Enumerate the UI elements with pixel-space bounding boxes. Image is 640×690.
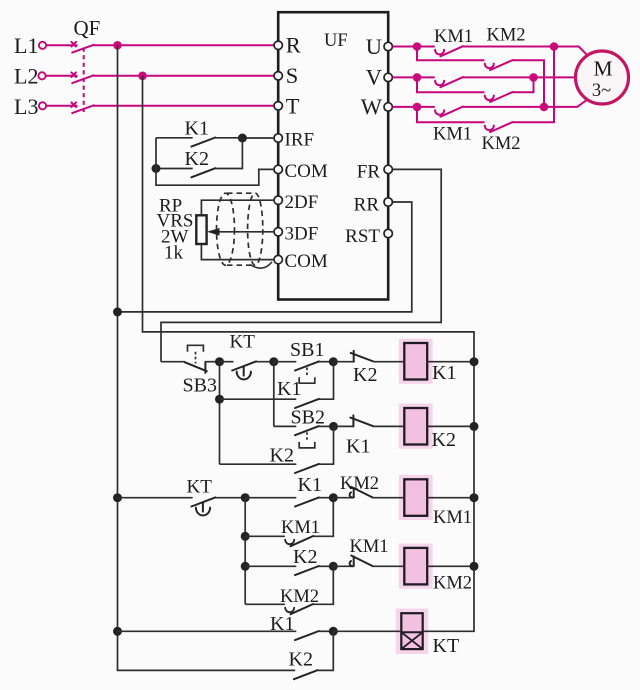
svg-text:QF: QF <box>74 16 101 40</box>
relay contact K1 NC (K2 coil row) <box>334 415 405 457</box>
contactor KM1 main contact U <box>435 46 463 56</box>
wire U row <box>392 46 434 48</box>
svg-text:K2: K2 <box>270 445 294 467</box>
wire node A down <box>219 362 221 465</box>
svg-text:U: U <box>366 34 382 59</box>
node L2 drop <box>138 72 147 81</box>
node E <box>241 493 250 502</box>
wire KM2-W to U motor line <box>513 47 554 123</box>
svg-text:L1: L1 <box>14 33 38 58</box>
node B after KT <box>269 357 278 366</box>
frequency inverter UF box <box>278 12 388 299</box>
wire W to motor <box>463 99 588 107</box>
wire V row <box>392 76 434 78</box>
wire K2 coil to right rail <box>427 425 474 427</box>
relay contact K2 NC (K1 coil row) <box>333 351 404 386</box>
cable shield <box>217 193 263 265</box>
svg-text:T: T <box>286 93 300 118</box>
svg-text:KT: KT <box>230 332 256 353</box>
node V motor junction <box>529 73 538 82</box>
terminal 2DF <box>274 196 282 204</box>
node KM1 rail junction <box>470 493 479 502</box>
relay contact K2 (bottom row) <box>289 631 334 679</box>
svg-text:KM1: KM1 <box>281 518 320 538</box>
node KM1 self-hold tap <box>241 532 250 541</box>
node U motor junction <box>550 42 559 51</box>
svg-text:K2: K2 <box>289 649 313 671</box>
contactor KM1 main contact W <box>435 107 463 117</box>
wire right supply rail from L2 <box>143 76 475 632</box>
wire W via KM2 branch <box>417 107 485 122</box>
wire L2 to QF <box>46 75 78 77</box>
svg-text:KT: KT <box>187 477 213 498</box>
relay contact K1 (KM1 row) <box>245 474 333 507</box>
svg-text:3~: 3~ <box>592 81 611 101</box>
svg-text:V: V <box>366 65 382 90</box>
time relay contact KT (KM1 row) <box>118 477 246 516</box>
node V branch <box>413 73 422 82</box>
svg-text:KM2: KM2 <box>487 26 526 46</box>
svg-text:KM2: KM2 <box>482 134 521 154</box>
svg-text:SB1: SB1 <box>290 339 324 361</box>
svg-text:K1: K1 <box>432 362 456 384</box>
potentiometer RP body <box>196 215 206 244</box>
wire RP top to 2DF <box>201 200 274 215</box>
node L1 drop <box>113 41 122 50</box>
svg-text:KM2: KM2 <box>433 574 472 594</box>
wire QF to T <box>94 105 275 107</box>
wire U via KM2 branch <box>417 47 485 61</box>
contactor coil KM2 <box>399 544 472 594</box>
node C after SB1 <box>329 357 338 366</box>
breaker QF linkage <box>83 48 85 113</box>
terminal 3DF <box>274 228 282 236</box>
contactor contact KM1 NC (KM2 row) <box>333 537 404 566</box>
contactor KM2 main contact U <box>485 60 513 70</box>
svg-text:COM: COM <box>285 161 328 182</box>
terminal RR <box>384 198 392 206</box>
wire to KT coil <box>333 630 401 632</box>
wire RR feed <box>118 202 412 312</box>
wire KM2-U to W motor line <box>513 60 544 107</box>
svg-text:K2: K2 <box>432 429 456 451</box>
wire L3 to QF <box>46 105 77 107</box>
svg-text:KM1: KM1 <box>350 537 389 557</box>
svg-text:R: R <box>286 33 301 58</box>
svg-text:L2: L2 <box>14 63 38 88</box>
time relay coil KT <box>396 609 459 658</box>
svg-text:SB3: SB3 <box>183 375 217 397</box>
svg-text:RST: RST <box>345 226 380 247</box>
terminal COM1 <box>274 165 282 173</box>
node K2 left junction <box>152 164 161 173</box>
wire V to motor <box>463 76 576 78</box>
wire left rail from L1 <box>118 45 296 670</box>
wire RP wiper to 3DF <box>218 231 274 233</box>
wire RP bottom to COM <box>201 244 274 260</box>
terminal W <box>384 103 392 111</box>
relay coil K2 <box>399 404 456 452</box>
contactor contact KM1 (self-hold) <box>245 498 333 547</box>
terminal FR <box>384 165 392 173</box>
svg-text:1k: 1k <box>164 243 184 264</box>
node D after SB2 <box>329 422 338 431</box>
breaker QF pole 3 <box>71 102 93 113</box>
svg-text:KM2: KM2 <box>340 474 379 494</box>
svg-text:KM1: KM1 <box>433 508 472 528</box>
wire V via KM2 branch <box>417 77 485 92</box>
contactor KM2 main contact W <box>485 122 513 132</box>
node U branch <box>413 42 422 51</box>
node KM2 row left <box>241 562 250 571</box>
wire IRF lead <box>242 137 274 139</box>
terminal V <box>384 73 392 81</box>
motor M <box>576 51 629 104</box>
terminal L2 <box>38 72 45 79</box>
terminal L3 <box>39 102 46 109</box>
node left rail KT row <box>113 627 122 636</box>
node K1-K2 junction <box>238 134 247 143</box>
contactor contact KM2 (self-hold) <box>245 566 333 614</box>
wire U to motor <box>463 47 588 56</box>
shield drain wire <box>250 262 272 268</box>
relay contact K2 (IRF) <box>156 138 242 177</box>
node K1 rail junction <box>470 357 479 366</box>
terminal RST <box>384 229 392 237</box>
node G <box>329 562 338 571</box>
svg-text:W: W <box>361 94 383 119</box>
svg-text:RR: RR <box>354 194 380 215</box>
svg-text:L3: L3 <box>14 94 38 119</box>
svg-text:S: S <box>286 63 299 88</box>
svg-text:K1: K1 <box>298 474 322 496</box>
wire KM2-V to V motor line <box>513 77 534 92</box>
svg-text:COM: COM <box>285 251 328 272</box>
node K1 self-hold tap <box>215 395 224 404</box>
terminal T <box>274 102 282 110</box>
node W motor junction <box>540 103 549 112</box>
contactor contact KM2 NC (KM1 row) <box>333 474 404 498</box>
svg-text:K2: K2 <box>353 364 377 386</box>
svg-text:K2: K2 <box>293 546 317 568</box>
svg-text:KM1: KM1 <box>433 125 472 145</box>
wire FR feed <box>161 169 441 361</box>
wire W row <box>392 106 434 108</box>
svg-text:KM1: KM1 <box>434 27 473 47</box>
terminal U <box>384 42 392 50</box>
contactor KM1 main contact V <box>435 77 463 87</box>
svg-text:KM2: KM2 <box>280 587 319 607</box>
terminal COM2 <box>274 255 282 263</box>
wire L1 to QF <box>46 44 77 46</box>
svg-text:K1: K1 <box>277 378 301 400</box>
time relay contact KT (top) <box>220 332 274 380</box>
pushbutton SB3 <box>161 345 220 396</box>
svg-text:SB2: SB2 <box>291 407 325 429</box>
node A after SB3 <box>215 357 224 366</box>
relay contact K2 (self-hold) <box>220 426 334 473</box>
pushbutton SB1 <box>274 339 334 383</box>
node KM2 rail junction <box>470 562 479 571</box>
breaker QF pole 2 <box>71 72 93 83</box>
node RR to left rail <box>113 307 122 316</box>
wire KM1 coil to right rail <box>427 497 474 499</box>
pushbutton SB2 <box>274 407 334 448</box>
terminal IRF <box>274 134 282 142</box>
svg-text:2DF: 2DF <box>285 192 319 213</box>
svg-text:K1: K1 <box>346 436 370 458</box>
relay contact K2 (KM2 row) <box>245 546 333 575</box>
terminal R <box>274 41 282 49</box>
contactor KM2 main contact V <box>485 92 513 102</box>
contactor coil KM1 <box>399 475 472 528</box>
relay contact K1 (KT row) <box>118 613 334 640</box>
wire node E down <box>244 498 246 605</box>
svg-text:K1: K1 <box>185 118 209 140</box>
wire K1K2 block to COM <box>156 138 274 185</box>
svg-text:UF: UF <box>324 31 348 51</box>
wire K1 coil to right rail <box>427 361 474 363</box>
wire KM2 coil to right rail <box>427 565 474 567</box>
relay contact K1 (self-hold) <box>220 362 334 408</box>
node left rail KM1 row <box>113 493 122 502</box>
wire node B down <box>273 362 275 427</box>
relay coil K1 <box>399 339 457 384</box>
svg-text:FR: FR <box>357 162 381 183</box>
terminal L1 <box>39 42 46 49</box>
wire QF to R <box>94 44 275 46</box>
node W branch <box>413 103 422 112</box>
wire QF to S <box>94 75 275 77</box>
wiper arrow <box>207 228 220 236</box>
svg-text:3DF: 3DF <box>285 223 319 244</box>
svg-text:M: M <box>593 57 612 81</box>
breaker QF pole 1 <box>71 42 93 53</box>
node K2 rail junction <box>470 422 479 431</box>
terminal S <box>274 72 282 80</box>
relay contact K1 (IRF) <box>156 118 242 147</box>
node H before KT coil <box>329 627 338 636</box>
node F <box>329 493 338 502</box>
svg-text:KT: KT <box>433 635 460 657</box>
svg-text:IRF: IRF <box>285 130 315 151</box>
svg-text:K2: K2 <box>185 148 209 170</box>
svg-text:K1: K1 <box>270 613 294 635</box>
